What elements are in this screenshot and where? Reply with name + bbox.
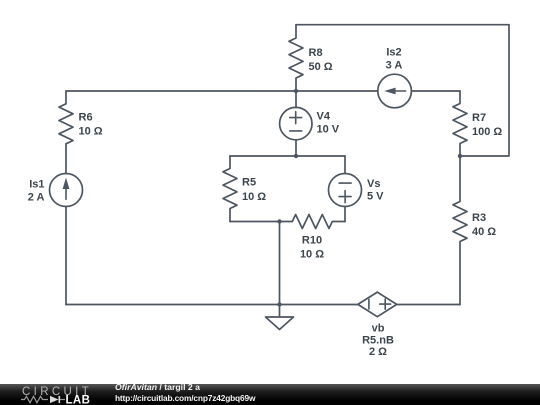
logo diode glyph (50, 396, 59, 403)
svg-text:Is2: Is2 (386, 47, 401, 59)
wire main horizontal y=91 right segment (411, 90, 460, 92)
resistor R5 (223, 156, 237, 222)
wire bottom rail right (397, 304, 460, 306)
Is1 arrow shaft (65, 188, 67, 199)
wire middle horizontal y=156 (230, 155, 345, 157)
current source Is1 (50, 174, 83, 207)
resistor R8 (289, 25, 303, 91)
svg-text:10 Ω: 10 Ω (300, 249, 324, 261)
Is2 arrow shaft (394, 90, 406, 92)
svg-text:R7: R7 (472, 112, 486, 124)
ground (266, 305, 294, 330)
svg-text:V4: V4 (317, 111, 331, 123)
svg-text:R5: R5 (242, 177, 256, 189)
voltage source V4 (295, 91, 297, 108)
svg-text:50 Ω: 50 Ω (309, 61, 333, 73)
resistor R6 (59, 91, 73, 173)
svg-text:R10: R10 (302, 235, 322, 247)
svg-text:2 A: 2 A (28, 192, 45, 204)
svg-text:LAB: LAB (66, 395, 91, 405)
Is1 arrow head (63, 178, 70, 189)
junction node V4 bottom (294, 154, 298, 158)
dependent source vb diamond (358, 292, 397, 317)
wire row y=221.5 left of R10 (230, 221, 292, 223)
Is2 arrow head (384, 88, 395, 95)
svg-text:10 Ω: 10 Ω (242, 191, 266, 203)
svg-text:R3: R3 (472, 212, 486, 224)
svg-text:3 A: 3 A (386, 60, 403, 72)
svg-text:10 Ω: 10 Ω (79, 126, 103, 138)
junction node R10 left (277, 219, 281, 223)
wire top loop: R8 top to right edge down to R7 bottom node (296, 25, 509, 156)
junction node ground rail (277, 302, 281, 306)
junction node R7 bottom (458, 154, 462, 158)
Vs plus sign (339, 191, 351, 203)
svg-text:R6: R6 (79, 112, 93, 124)
current source Is2 (378, 74, 412, 108)
svg-text:OfirAvitan / targil 2 a: OfirAvitan / targil 2 a (115, 382, 200, 392)
resistor R7 (453, 91, 467, 156)
wire Is1 bottom to bottom rail (65, 207, 67, 305)
junction node R8/wire (294, 89, 298, 93)
wire main horizontal y=91 left segment (66, 90, 378, 92)
svg-text:http://circuitlab.com/cnp7z42g: http://circuitlab.com/cnp7z42gbq69w (115, 393, 256, 403)
V4 plus sign (290, 112, 302, 124)
svg-text:Is1: Is1 (29, 179, 44, 191)
svg-text:5 V: 5 V (367, 191, 384, 203)
svg-text:R5.nB: R5.nB (362, 335, 394, 347)
V4 minus sign (290, 130, 302, 132)
svg-text:100 Ω: 100 Ω (472, 126, 502, 138)
svg-text:2 Ω: 2 Ω (369, 346, 387, 358)
logo resistor glyph (21, 396, 48, 402)
vb minus bar (368, 299, 370, 309)
svg-text:R8: R8 (309, 47, 323, 59)
svg-text:10 V: 10 V (317, 124, 340, 136)
wire bottom rail left (66, 304, 358, 306)
svg-text:vb: vb (372, 323, 385, 335)
wire ground branch vertical x=279.5 (279, 222, 281, 305)
resistor R10 (292, 215, 345, 229)
Vs minus sign (339, 182, 351, 184)
svg-text:Vs: Vs (367, 178, 380, 190)
resistor R3 (453, 156, 467, 305)
vb plus sign (380, 299, 391, 309)
voltage source Vs (344, 156, 346, 174)
svg-text:40 Ω: 40 Ω (472, 226, 496, 238)
